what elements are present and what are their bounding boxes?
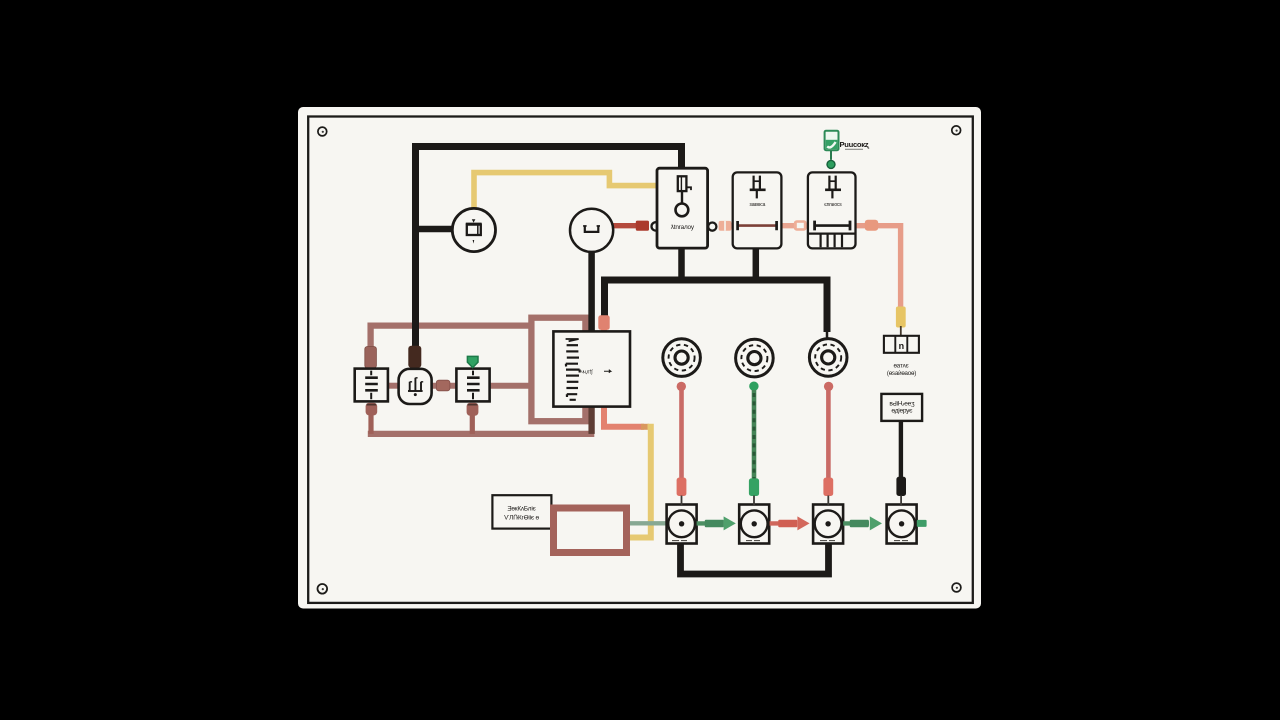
wire green G2 to V2 (752, 390, 757, 479)
battery box T3 (456, 369, 489, 402)
motor M1 (452, 208, 495, 251)
wire black main loop top (416, 147, 682, 350)
motor M2 (570, 209, 613, 252)
wire salmon G3 to V3 (826, 390, 831, 478)
node dot salmon under G3 (824, 382, 833, 391)
screw top-left (318, 127, 327, 136)
screw bottom-left (318, 584, 328, 594)
ring terminal at U1 left pin (652, 222, 658, 230)
gauge G2 (736, 339, 774, 377)
wire thin lead into terminal block TB1 (900, 326, 902, 336)
wire dark brown under box U5 (588, 406, 594, 434)
fuse box U1 (657, 168, 708, 248)
wire brown middle T1-T2 (388, 383, 399, 389)
node dot salmon under G1 (677, 382, 686, 391)
wire salmon from U3 right with corner down (856, 226, 901, 308)
wire salmon stub into U5 top (601, 329, 607, 333)
wire black U1 bottom pin (678, 248, 685, 280)
wire gray-green from P1 to V1 (630, 521, 667, 525)
flow arrow green V1-V2 (697, 516, 736, 530)
wire black TB2 to V4 (899, 421, 903, 478)
wire brown loop rectangle (net LOOP1) (531, 318, 585, 422)
connector CN7 dark red (636, 221, 649, 231)
wire black U2 bottom pin (753, 249, 760, 281)
connector CN10 big salmon (865, 220, 878, 231)
wire green stem to node (830, 151, 832, 160)
label plate L1 (492, 495, 551, 528)
battery box T1 (355, 369, 388, 402)
flow stub green right of V4 (917, 520, 927, 527)
connector CN12 salmon above V1 (677, 478, 687, 505)
control pod T2 (399, 369, 432, 404)
wire brown top horizontal from T1 to loop (371, 326, 531, 349)
svg-text:өдіерує: өдіерує (891, 407, 913, 415)
connector CN15 black above V4 (896, 477, 906, 505)
controller box U5 (553, 331, 630, 406)
caption under TB1 (887, 362, 916, 377)
svg-text:ƎөкКʌБліє: ƎөкКʌБліє (507, 504, 536, 512)
connector CN2 between T2 and T3 (436, 380, 450, 391)
screw bottom-right (952, 583, 961, 592)
connector CN4 below T3 (467, 403, 479, 416)
indicator flask icon (825, 131, 839, 151)
wire brown middle T2-T3 (432, 383, 458, 389)
svg-text:൥чч,л†ʃ: ൥чч,л†ʃ (581, 369, 593, 375)
screw top-right (952, 126, 961, 135)
svg-text:вԀіԊееʒ: вԀіԊееʒ (889, 399, 915, 407)
connector CN8 salmon between U1-U2 (719, 221, 732, 231)
svg-text:saιвөca: saιвөca (749, 202, 765, 208)
wire red from motor M2 to fuse U1 (613, 223, 639, 228)
name plate TB2 (881, 394, 922, 421)
wire orange transition segment (641, 424, 649, 430)
connector CN9 salmon hollow (794, 220, 807, 230)
gauge G1 (663, 339, 701, 377)
valve V1 (667, 505, 697, 544)
node dot green under G2 (749, 382, 758, 391)
connector CN14 salmon above V3 (823, 478, 833, 505)
valve V4 (887, 505, 917, 544)
flow arrow green V3-V4 (843, 516, 882, 530)
relay U2 (733, 172, 782, 248)
wire yellow down to pump box (630, 427, 651, 538)
wire salmon U2 left stub (731, 223, 734, 228)
svg-text:n: n (899, 341, 905, 351)
wire salmon G1 to V1 (679, 390, 684, 478)
green funnel marker above T3 (467, 356, 478, 367)
svg-text:Ρuuсокʐ: Ρuuсокʐ (840, 140, 870, 149)
wire black branch to motor M1 (416, 226, 455, 233)
valve V3 (813, 505, 843, 544)
node dot green above U3 (827, 160, 835, 168)
connector CN6 salmon on bus drop (598, 315, 609, 330)
svg-text:єnnʁосѕ: єnnʁосѕ (824, 202, 842, 208)
svg-text:өaтʌє: өaтʌє (894, 362, 909, 369)
terminal block TB1 three cells (884, 336, 919, 353)
wire black bus with corner drops (605, 280, 828, 332)
wire salmon from U5 bottom right (604, 406, 644, 427)
panel board (298, 107, 981, 609)
svg-text:(өsаѝөaоө): (өsаѝөaоө) (887, 370, 916, 377)
svg-text:ƛtnraлoу: ƛtnraлoу (671, 224, 695, 231)
wire brown middle T3 to loop (490, 383, 532, 389)
connector CN13 green above V2 (749, 478, 759, 505)
relay U3 (808, 172, 856, 248)
wire brown drop from T1 bottom (368, 412, 373, 434)
wire brown drop from T3 bottom (470, 413, 475, 434)
ring terminal at U1 right pin (708, 223, 716, 231)
panel border frame (308, 117, 973, 603)
connector CN1 above T1 (365, 347, 377, 369)
label Puunus (840, 140, 870, 149)
wire brown bottom horizontal bus (368, 431, 595, 437)
wire black thin stub to gauge G3 (826, 331, 829, 340)
gauge G3 (809, 339, 847, 377)
pump box P1 brown (554, 508, 627, 553)
svg-text:ѴЛՌКгӨііє ө: ѴЛՌКгӨііє ө (504, 514, 539, 522)
connector CN5 dark above T2 (408, 346, 421, 368)
connector CN11 yellow above terminal block (896, 307, 906, 328)
wire yellow from motor M1 to fuse U1 (474, 173, 658, 211)
wire black bottom U-link V1-V3 (681, 544, 829, 575)
wire black motor M2 to box U5 (588, 251, 595, 333)
valve V2 (739, 505, 769, 544)
wire salmon between U2-U3 (782, 223, 809, 228)
flow arrow red V2-V3 (770, 516, 810, 530)
connector CN3 below T1 (366, 403, 378, 416)
